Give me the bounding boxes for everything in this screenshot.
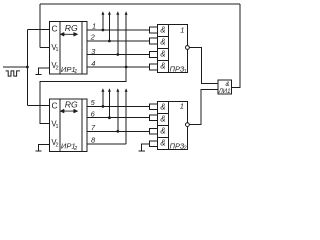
wire tap arrow 8 bbox=[125, 91, 127, 144]
ground at cell 8 bbox=[138, 150, 145, 152]
svg-text:6: 6 bbox=[91, 109, 96, 118]
wire tap arrow 2 bbox=[108, 14, 110, 41]
clock generator symbol G1 bbox=[6, 71, 20, 76]
svg-text:2: 2 bbox=[90, 32, 95, 41]
wire right feedback vertical bbox=[231, 4, 240, 87]
wire tap arrow 4 bbox=[125, 14, 127, 67]
svg-text:&: & bbox=[160, 62, 165, 71]
svg-text:2: 2 bbox=[73, 146, 77, 152]
wire ПРЗ2 output to ЛИ1 bbox=[189, 90, 218, 125]
svg-text:1: 1 bbox=[56, 124, 59, 130]
inverter bubble ПРЗ1 bbox=[186, 46, 190, 50]
svg-text:1: 1 bbox=[184, 69, 187, 75]
wire clock bus bbox=[26, 30, 28, 106]
ground at V2 register1 bbox=[36, 74, 42, 76]
input fork cell 4 bbox=[150, 64, 158, 70]
inverter bubble ПРЗ2 bbox=[186, 123, 190, 127]
bidirectional arrow bbox=[61, 33, 78, 37]
svg-text:&: & bbox=[160, 38, 165, 47]
wire output 3 bbox=[87, 54, 150, 56]
svg-text:1: 1 bbox=[180, 25, 184, 34]
register U2 ИР1_2 bbox=[49, 99, 87, 152]
svg-text:1: 1 bbox=[56, 47, 59, 53]
node clock junction bbox=[26, 66, 29, 69]
bidirectional arrow 2 bbox=[61, 109, 78, 113]
svg-text:2: 2 bbox=[56, 66, 59, 72]
wire ground to cell 8 fork bbox=[142, 144, 150, 151]
svg-text:8: 8 bbox=[91, 136, 96, 145]
svg-text:RG: RG bbox=[65, 23, 78, 33]
wire V1 register1 feedback from top bbox=[40, 4, 49, 47]
svg-text:4: 4 bbox=[91, 59, 95, 68]
svg-text:ПРЗ: ПРЗ bbox=[170, 65, 185, 74]
wire output 5 bbox=[87, 105, 150, 107]
gate ЛИ1 bbox=[218, 80, 231, 94]
wire V2 register2 to ground bbox=[39, 145, 50, 151]
wire output 8 (to riser) bbox=[87, 143, 126, 145]
wire output 1 bbox=[87, 29, 150, 31]
input fork cell 1 bbox=[150, 27, 158, 33]
register U1 ИР1_1 bbox=[49, 21, 87, 74]
svg-text:C: C bbox=[52, 100, 58, 110]
svg-text:ЛИ1: ЛИ1 bbox=[218, 89, 231, 95]
svg-text:C: C bbox=[52, 24, 58, 34]
svg-text:&: & bbox=[226, 81, 230, 88]
wire C input register 1 bbox=[27, 29, 49, 31]
svg-text:2: 2 bbox=[183, 146, 187, 152]
svg-text:&: & bbox=[160, 139, 165, 148]
wire serial link output4 to V1 register2 bbox=[40, 67, 126, 124]
input fork cell 8 bbox=[150, 141, 158, 147]
input fork cell 3 bbox=[150, 52, 158, 58]
svg-text:5: 5 bbox=[91, 98, 96, 107]
wire C input register 2 bbox=[27, 105, 49, 107]
svg-text:RG: RG bbox=[65, 100, 78, 110]
svg-text:&: & bbox=[160, 127, 165, 136]
wire tap arrow 7 bbox=[117, 91, 119, 131]
input fork cell 7 bbox=[150, 128, 158, 134]
wire ПРЗ1 output to ЛИ1 bbox=[189, 48, 218, 84]
svg-text:&: & bbox=[160, 115, 165, 124]
wire top feedback horizontal bbox=[40, 3, 240, 5]
ground at V2 register2 bbox=[36, 150, 42, 152]
svg-text:&: & bbox=[160, 103, 165, 112]
svg-text:1: 1 bbox=[92, 21, 96, 30]
gate block ПРЗ1 bbox=[157, 24, 187, 72]
input fork cell 6 bbox=[150, 115, 158, 121]
svg-text:&: & bbox=[160, 26, 165, 35]
gate block ПРЗ2 bbox=[157, 101, 187, 149]
input fork cell 2 bbox=[150, 38, 158, 44]
wire clock source bbox=[3, 66, 27, 68]
svg-text:ПРЗ: ПРЗ bbox=[170, 142, 185, 151]
input fork cell 5 bbox=[150, 104, 158, 110]
wire output 7 bbox=[87, 130, 150, 132]
svg-text:2: 2 bbox=[56, 142, 59, 148]
svg-text:1: 1 bbox=[74, 69, 77, 75]
svg-text:&: & bbox=[160, 50, 165, 59]
wire output 2 bbox=[87, 40, 150, 42]
svg-text:1: 1 bbox=[180, 101, 184, 110]
wire output 6 bbox=[87, 117, 150, 119]
wire tap arrow 3 bbox=[117, 14, 119, 55]
wire tap arrow 5 bbox=[102, 91, 104, 106]
wire tap arrow 1 bbox=[102, 14, 104, 30]
wire output 4 bbox=[87, 66, 150, 68]
wire V2 register1 to ground bbox=[39, 68, 50, 75]
wire tap arrow 6 bbox=[108, 91, 110, 118]
